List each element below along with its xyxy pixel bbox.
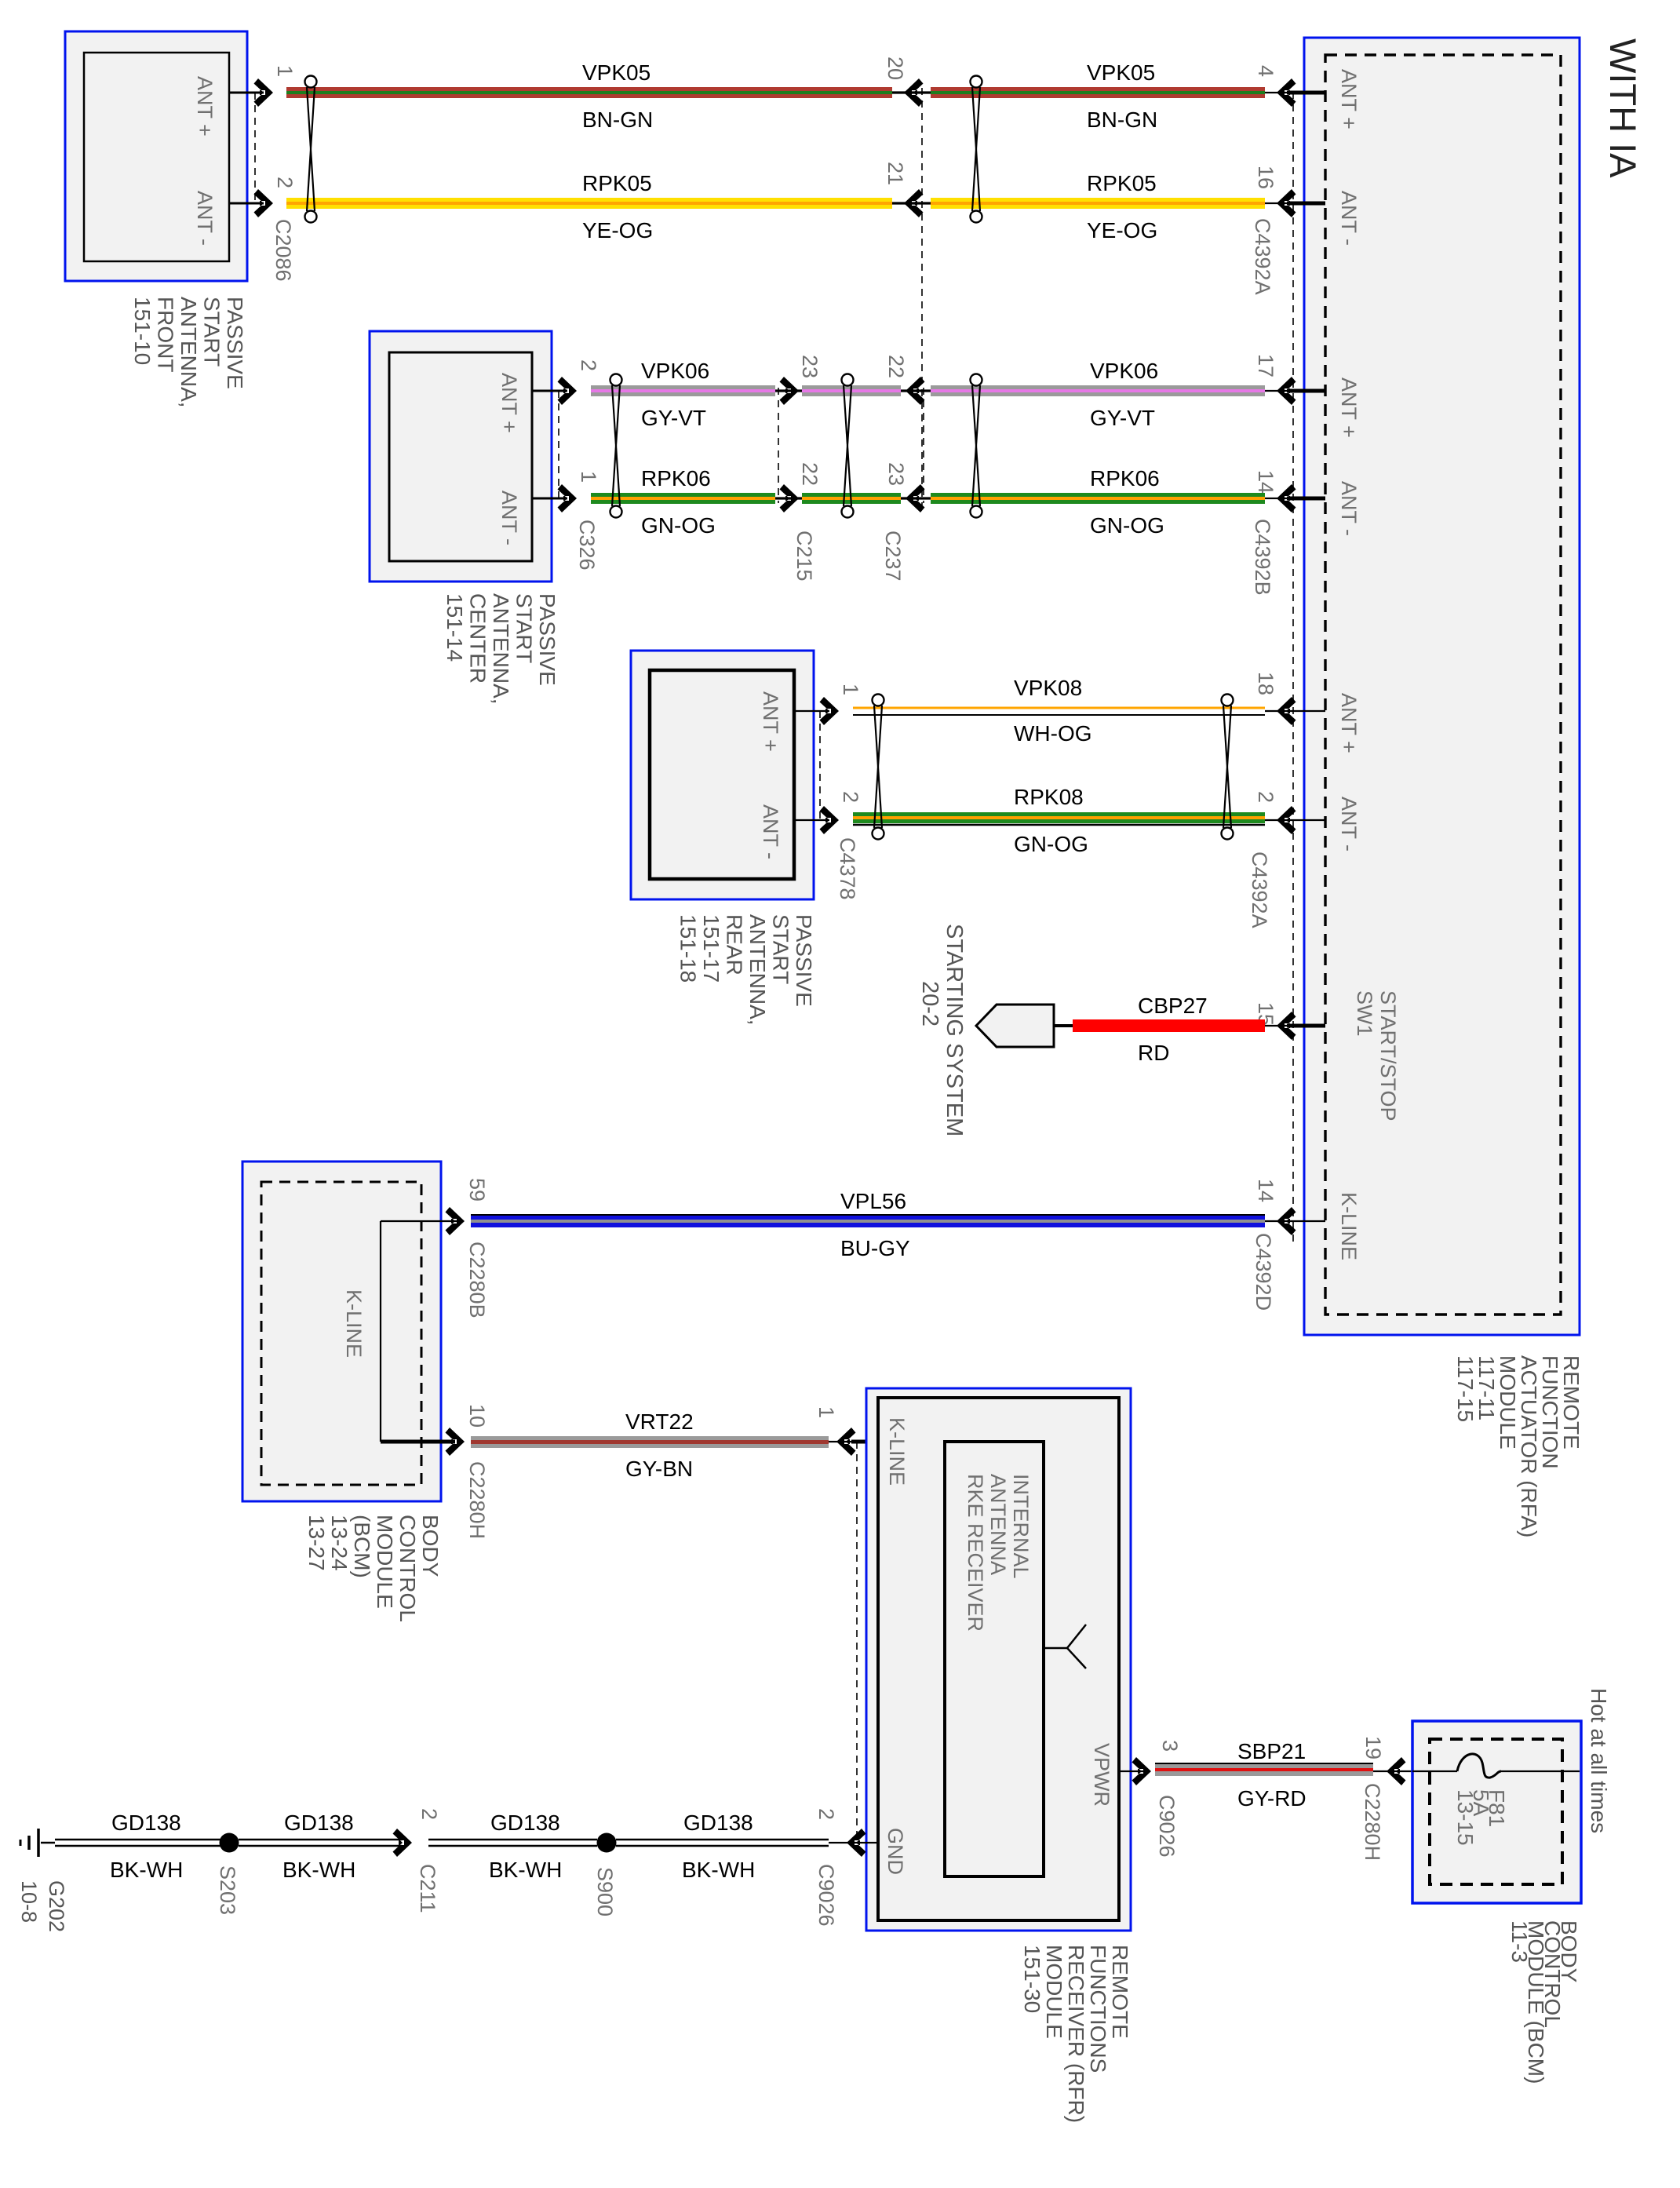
svg-text:C4378: C4378: [836, 837, 859, 900]
connector C4378 dashed line: [819, 711, 821, 820]
antenna symbol: [1044, 1625, 1086, 1668]
label REMOTE FUNCTIONS RECEIVER (RFR) MODULE 151-30: [1020, 1945, 1132, 2123]
svg-text:VPK05: VPK05: [582, 60, 650, 85]
svg-text:2: 2: [814, 1808, 838, 1820]
svg-text:GD138: GD138: [111, 1811, 181, 1835]
svg-text:PASSIVE: PASSIVE: [792, 914, 816, 1007]
label VPK08 WH-OG: [1014, 676, 1092, 746]
svg-text:RPK05: RPK05: [582, 171, 652, 195]
svg-text:C326: C326: [575, 520, 599, 571]
svg-text:2: 2: [417, 1808, 441, 1820]
svg-text:GY-BN: GY-BN: [625, 1457, 693, 1481]
svg-text:K-LINE: K-LINE: [885, 1417, 909, 1486]
twisted pair symbol (front): [305, 76, 317, 223]
svg-text:GY-VT: GY-VT: [1090, 406, 1155, 430]
label RPK06 GN-OG left: [641, 466, 716, 538]
svg-text:START: START: [200, 297, 224, 366]
svg-text:RPK06: RPK06: [1090, 466, 1160, 490]
svg-text:2: 2: [1254, 791, 1277, 803]
svg-text:SW1: SW1: [1353, 990, 1376, 1037]
svg-text:RECEIVER (RFR): RECEIVER (RFR): [1064, 1945, 1088, 2123]
svg-text:ANT +: ANT +: [759, 691, 782, 752]
svg-text:ANT +: ANT +: [1337, 693, 1361, 753]
module PASSIVE START ANTENNA REAR box: [631, 651, 814, 899]
label VRT22 GY-BN: [625, 1409, 694, 1481]
svg-text:CONTROL: CONTROL: [395, 1515, 420, 1622]
rear antenna pin 2: [794, 791, 862, 834]
wire GD138 BK-WH segment 4: [616, 1840, 829, 1846]
twisted pair symbol (rear antenna): [873, 695, 884, 840]
svg-text:BK-WH: BK-WH: [110, 1858, 183, 1882]
svg-text:117-15: 117-15: [1453, 1355, 1478, 1422]
svg-text:WITH IA: WITH IA: [1602, 38, 1644, 178]
svg-text:VPWR: VPWR: [1090, 1743, 1113, 1807]
svg-text:1: 1: [273, 65, 297, 77]
BCM internal K-LINE wire: [381, 1221, 460, 1442]
module PASSIVE START ANTENNA FRONT box: [65, 31, 247, 281]
module U1 REMOTE FUNCTION ACTUATOR (RFA) MODULE box: [1304, 38, 1580, 1335]
wire RPK06 GN-OG segment 1: [591, 493, 775, 504]
svg-text:20-2: 20-2: [917, 981, 942, 1027]
svg-text:FRONT: FRONT: [154, 297, 178, 372]
svg-text:13-24: 13-24: [327, 1515, 352, 1571]
svg-text:C2280H: C2280H: [1361, 1783, 1384, 1861]
RFR connector dashed line: [856, 1442, 858, 1843]
wire CBP27 RD: [1073, 1019, 1265, 1032]
label PASSIVE START ANTENNA REAR 151-17 151-18: [676, 914, 817, 1026]
splice S900: [597, 1833, 617, 1853]
svg-text:GD138: GD138: [490, 1811, 560, 1835]
svg-text:14: 14: [1254, 1179, 1277, 1202]
svg-text:C4392A: C4392A: [1251, 218, 1274, 295]
svg-text:VPK06: VPK06: [1090, 359, 1158, 383]
svg-text:GN-OG: GN-OG: [641, 513, 716, 538]
svg-text:START: START: [512, 593, 537, 663]
fuse F81 element: [1457, 1754, 1501, 1778]
svg-text:4: 4: [1254, 65, 1277, 77]
label BODY CONTROL MODULE (BCM) 13-24 13-27: [304, 1515, 443, 1622]
splice S203: [220, 1833, 239, 1853]
label GD138 BK-WH seg2: [282, 1811, 355, 1882]
svg-text:13-27: 13-27: [304, 1515, 329, 1571]
svg-text:59: 59: [465, 1178, 489, 1202]
svg-text:(BCM): (BCM): [350, 1515, 374, 1578]
svg-text:YE-OG: YE-OG: [1087, 218, 1157, 243]
twisted pair symbol (right of C237): [971, 374, 982, 518]
svg-text:WH-OG: WH-OG: [1014, 721, 1092, 746]
wire RPK05 YE-OG segment 2: [931, 198, 1265, 209]
svg-text:19: 19: [1361, 1736, 1385, 1760]
svg-text:1: 1: [814, 1406, 838, 1418]
svg-text:C215: C215: [793, 531, 816, 582]
svg-text:YE-OG: YE-OG: [582, 218, 653, 243]
label GD138 BK-WH seg3: [489, 1811, 562, 1882]
svg-text:C237: C237: [881, 531, 905, 582]
svg-text:151-10: 151-10: [130, 297, 155, 365]
svg-text:ANT -: ANT -: [759, 804, 782, 859]
wire GD138 BK-WH segment 2: [239, 1840, 402, 1846]
in-line connector dashed line: [921, 88, 923, 508]
svg-text:REAR: REAR: [723, 914, 747, 975]
svg-text:STARTING SYSTEM: STARTING SYSTEM: [942, 924, 967, 1136]
RFA pin 14 stub + arrow: [1254, 470, 1361, 536]
svg-text:ANT -: ANT -: [497, 490, 521, 545]
wire RPK06 GN-OG segment 3: [931, 493, 1265, 504]
svg-text:151-18: 151-18: [676, 914, 701, 983]
svg-text:RD: RD: [1138, 1041, 1169, 1065]
svg-text:K-LINE: K-LINE: [1337, 1192, 1361, 1260]
svg-text:1: 1: [577, 471, 600, 483]
svg-text:GND: GND: [884, 1828, 907, 1875]
svg-text:G202: G202: [45, 1880, 68, 1932]
svg-text:SBP21: SBP21: [1237, 1739, 1306, 1763]
front antenna pin 2: [229, 177, 297, 217]
svg-text:ANT +: ANT +: [1337, 377, 1361, 438]
svg-text:BODY: BODY: [418, 1515, 443, 1577]
svg-text:ANTENNA,: ANTENNA,: [489, 593, 513, 705]
svg-text:11-3: 11-3: [1507, 1920, 1532, 1963]
RFR GND pin 2: [814, 1808, 878, 1857]
svg-text:23: 23: [798, 355, 822, 378]
svg-text:16: 16: [1254, 166, 1277, 189]
svg-text:ANT +: ANT +: [1337, 69, 1361, 129]
svg-text:1: 1: [839, 684, 862, 695]
svg-text:ANT -: ANT -: [1337, 191, 1361, 246]
BCM pin 10: [381, 1404, 489, 1456]
connector C215 pins 23/22: [775, 355, 822, 405]
svg-text:ANTENNA: ANTENNA: [986, 1474, 1010, 1575]
svg-text:BN-GN: BN-GN: [582, 108, 653, 132]
svg-text:S900: S900: [593, 1867, 617, 1916]
module REMOTE FUNCTIONS RECEIVER (RFR) box: [866, 1388, 1131, 1931]
svg-text:ANTENNA,: ANTENNA,: [177, 297, 201, 408]
svg-text:22: 22: [884, 355, 908, 378]
svg-text:C2280H: C2280H: [465, 1461, 489, 1539]
label REMOTE FUNCTION ACTUATOR (RFA) MODULE 117-11 117-15: [1453, 1355, 1583, 1537]
RFA pin 18 stub + arrow: [1254, 672, 1361, 753]
svg-text:FUNCTIONS: FUNCTIONS: [1086, 1945, 1110, 2073]
label VPK06 GY-VT left: [641, 359, 709, 430]
ground G202 symbol: [20, 1829, 55, 1857]
svg-text:CBP27: CBP27: [1138, 994, 1208, 1018]
svg-text:C4392D: C4392D: [1252, 1233, 1275, 1311]
svg-text:2: 2: [839, 791, 862, 803]
svg-text:C9026: C9026: [1155, 1795, 1179, 1858]
svg-text:13-15: 13-15: [1453, 1789, 1478, 1846]
label GD138 BK-WH seg4: [682, 1811, 755, 1882]
RFA pin 17 stub + arrow: [1254, 354, 1361, 438]
svg-text:21: 21: [884, 162, 907, 185]
svg-text:10-8: 10-8: [17, 1880, 41, 1923]
label CBP27 RD: [1138, 994, 1208, 1065]
svg-text:K-LINE: K-LINE: [342, 1289, 366, 1358]
wire VPK08 WH-OG: [853, 708, 1265, 715]
svg-text:S203: S203: [216, 1865, 239, 1915]
label RPK08 GN-OG: [1014, 785, 1088, 856]
label PASSIVE START ANTENNA CENTER 151-14: [443, 593, 559, 705]
twisted pair symbol (between C215 and C237): [842, 374, 854, 518]
wire RPK06 GN-OG segment 2: [802, 493, 901, 504]
svg-text:ANT +: ANT +: [497, 373, 521, 433]
svg-text:ANT -: ANT -: [1337, 481, 1361, 536]
svg-text:PASSIVE: PASSIVE: [223, 297, 247, 389]
svg-text:18: 18: [1254, 672, 1277, 695]
connector C211 pin 2: [393, 1808, 442, 1857]
label BODY CONTROL MODULE (BCM) 11-3: [1507, 1920, 1581, 2084]
connector C215 dashed line: [778, 388, 779, 503]
twisted pair symbol (right of connector): [971, 76, 982, 223]
svg-text:Hot at all times: Hot at all times: [1587, 1688, 1611, 1833]
svg-text:ANT +: ANT +: [193, 76, 217, 137]
svg-text:2: 2: [577, 359, 600, 371]
connector C4392 boundary dashed line: [1292, 92, 1294, 1246]
label VPK05 BN-GN left: [582, 60, 653, 132]
svg-text:VPK05: VPK05: [1087, 60, 1155, 85]
svg-text:START: START: [769, 914, 793, 984]
svg-text:22: 22: [798, 462, 822, 486]
RFA pin 14 stub + arrow: [1254, 1179, 1361, 1260]
wire VRT22 GY-BN: [471, 1436, 829, 1448]
svg-text:VPK08: VPK08: [1014, 676, 1082, 700]
label SBP21 GY-RD: [1237, 1739, 1306, 1811]
connector C2086 dashed line: [254, 93, 256, 203]
wire VPK05 BN-GN segment 1: [286, 87, 892, 98]
wire VPK06 GY-VT segment 1: [591, 385, 775, 396]
svg-text:START/STOP: START/STOP: [1376, 990, 1400, 1121]
label VPL56 BU-GY: [840, 1189, 910, 1260]
label F81 5A 13-15: [1453, 1789, 1509, 1846]
RFA pin 2 stub + arrow: [1254, 791, 1361, 851]
wire SBP21 GY-RD: [1155, 1763, 1373, 1776]
svg-text:REMOTE: REMOTE: [1108, 1945, 1132, 2039]
label G202 10-8: [17, 1880, 68, 1932]
twisted pair symbol (center antenna): [610, 374, 622, 518]
svg-text:23: 23: [884, 462, 908, 486]
RFR pin 3 VPWR stub: [1119, 1740, 1182, 1785]
svg-text:C2280B: C2280B: [465, 1242, 489, 1318]
connector C237 dashed line: [923, 388, 924, 503]
svg-text:RPK08: RPK08: [1014, 785, 1084, 809]
svg-text:RPK06: RPK06: [641, 466, 711, 490]
svg-text:PASSIVE: PASSIVE: [535, 593, 559, 686]
label RPK05 YE-OG right: [1087, 171, 1157, 243]
svg-text:MODULE: MODULE: [373, 1515, 397, 1609]
module BODY CONTROL MODULE (BCM) fuse box: [1412, 1721, 1581, 1903]
in-line connector pins 20/21: [884, 57, 931, 107]
svg-text:C2086: C2086: [271, 219, 295, 282]
module BODY CONTROL MODULE (BCM) K-LINE box: [242, 1161, 441, 1501]
label GD138 BK-WH seg1: [110, 1811, 183, 1882]
svg-text:ANTENNA,: ANTENNA,: [745, 914, 770, 1026]
wire VPK06 GY-VT segment 2: [802, 385, 901, 396]
front antenna pin 1: [229, 65, 297, 107]
svg-text:INTERNAL: INTERNAL: [1009, 1474, 1033, 1579]
label VPK05 BN-GN right: [1087, 60, 1157, 132]
RFA pin 16 stub + arrow: [1254, 166, 1361, 246]
RFA pin 15 stub + arrow: [1254, 1002, 1325, 1040]
svg-text:CENTER: CENTER: [466, 593, 490, 684]
svg-text:GN-OG: GN-OG: [1090, 513, 1164, 538]
svg-text:20: 20: [884, 57, 907, 80]
label RPK06 GN-OG right: [1090, 466, 1164, 538]
svg-text:RPK05: RPK05: [1087, 171, 1157, 195]
RFR pin 1: [814, 1406, 878, 1456]
wire GD138 BK-WH segment 3: [428, 1840, 597, 1846]
BCM pin 59: [446, 1178, 490, 1235]
svg-text:BN-GN: BN-GN: [1087, 108, 1157, 132]
wire VPL56 BU-GY: [471, 1214, 1265, 1227]
svg-text:BK-WH: BK-WH: [682, 1858, 755, 1882]
svg-text:14: 14: [1254, 470, 1277, 494]
RFA pin name START/STOP SW1: [1353, 990, 1400, 1121]
RFA pin 4 stub + arrow: [1254, 65, 1361, 129]
svg-text:ANT -: ANT -: [193, 191, 217, 246]
svg-text:BU-GY: BU-GY: [840, 1236, 910, 1260]
fuse box pin 19: [1361, 1736, 1412, 1785]
wire VPK05 BN-GN segment 2: [931, 87, 1265, 98]
svg-text:BK-WH: BK-WH: [282, 1858, 355, 1882]
svg-text:VPK06: VPK06: [641, 359, 709, 383]
svg-text:C211: C211: [416, 1864, 439, 1913]
connector C237 pins 22/23: [884, 355, 931, 405]
svg-text:GD138: GD138: [683, 1811, 753, 1835]
label VPK06 GY-VT right: [1090, 359, 1158, 430]
svg-text:ANT -: ANT -: [1337, 797, 1361, 851]
svg-text:GD138: GD138: [284, 1811, 354, 1835]
svg-text:3: 3: [1158, 1740, 1182, 1752]
svg-text:GY-RD: GY-RD: [1237, 1786, 1306, 1811]
label RPK05 YE-OG left: [582, 171, 653, 243]
svg-text:151-30: 151-30: [1020, 1945, 1044, 2013]
twisted pair symbol (RFA side pair 08): [1222, 695, 1234, 840]
rear antenna pin 1: [794, 684, 862, 725]
svg-text:151-17: 151-17: [699, 914, 723, 983]
svg-text:10: 10: [465, 1404, 489, 1428]
svg-text:C4392B: C4392B: [1251, 519, 1274, 596]
svg-text:C9026: C9026: [814, 1864, 838, 1927]
center antenna pin 2: [532, 359, 600, 405]
internal antenna box INTERNAL ANTENNA RKE RECEIVER: [945, 1442, 1044, 1876]
svg-text:VPL56: VPL56: [840, 1189, 906, 1213]
svg-text:151-14: 151-14: [443, 593, 467, 662]
wire RPK05 YE-OG segment 1: [286, 198, 892, 209]
svg-text:GY-VT: GY-VT: [641, 406, 706, 430]
svg-text:2: 2: [273, 177, 297, 188]
wire RPK08 GN-OG: [853, 812, 1265, 825]
svg-text:VRT22: VRT22: [625, 1409, 694, 1434]
svg-text:17: 17: [1254, 354, 1277, 377]
fuse F81 5A wire: [1412, 1770, 1580, 1772]
module PASSIVE START ANTENNA CENTER box: [370, 331, 552, 582]
label STARTING SYSTEM 20-2: [917, 924, 967, 1136]
svg-text:GN-OG: GN-OG: [1014, 832, 1088, 856]
svg-text:RKE RECEIVER: RKE RECEIVER: [964, 1474, 987, 1632]
svg-text:MODULE: MODULE: [1042, 1945, 1066, 2039]
connector C326 dashed line: [558, 391, 559, 498]
svg-text:C4392A: C4392A: [1248, 851, 1271, 928]
svg-text:BK-WH: BK-WH: [489, 1858, 562, 1882]
center antenna pin 1: [532, 471, 600, 512]
label PASSIVE START ANTENNA FRONT 151-10: [130, 297, 247, 408]
wire VPK06 GY-VT segment 3: [931, 385, 1265, 396]
off-page connector STARTING SYSTEM 20-2: [976, 1005, 1073, 1047]
wire GD138 BK-WH segment 1: [55, 1840, 221, 1846]
